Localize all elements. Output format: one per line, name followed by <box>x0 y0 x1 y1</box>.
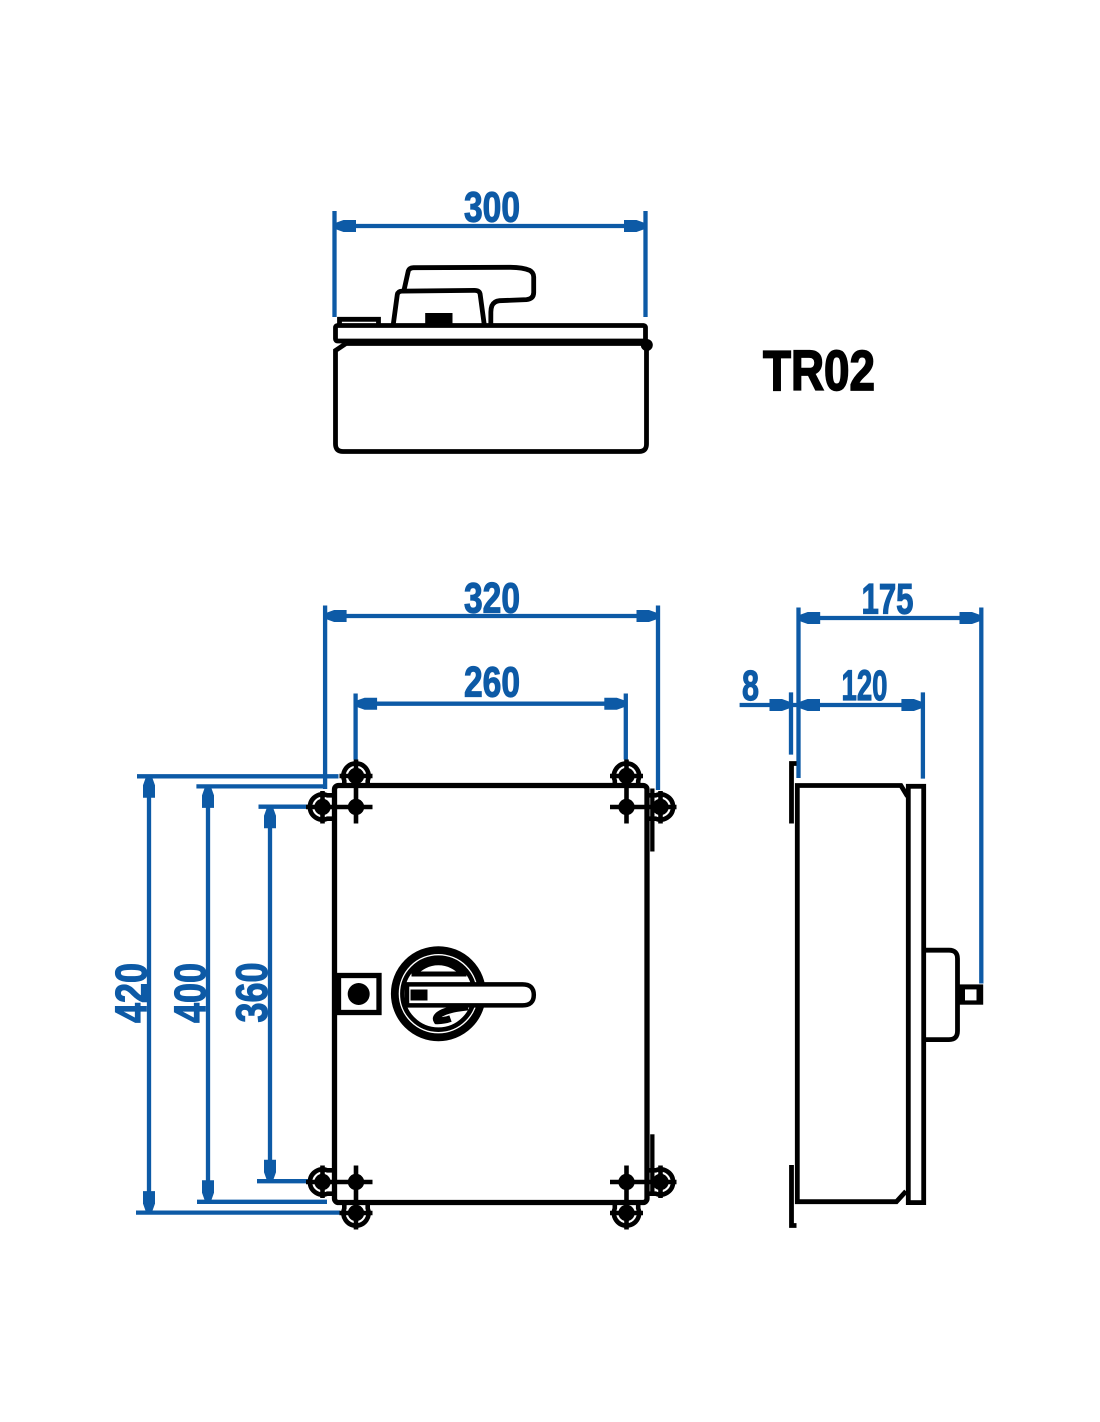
lid tab (top-left small rectangle) <box>340 319 379 325</box>
handle grip chord <box>412 972 467 977</box>
mounting lug top-left <box>306 760 373 824</box>
svg-text:300: 300 <box>464 184 520 232</box>
mounting lug bottom-left <box>306 1166 373 1230</box>
svg-text:120: 120 <box>842 662 888 710</box>
door lock (square with dot) <box>339 976 380 1013</box>
dimension 175 <box>799 608 982 984</box>
hinge top (front view right edge) <box>650 789 654 852</box>
svg-text:360: 360 <box>228 963 277 1023</box>
dimension 8 + 120 <box>740 692 923 778</box>
mounting lug bottom-right <box>610 1166 677 1230</box>
svg-text:420: 420 <box>108 963 157 1023</box>
dimension 300 <box>335 211 646 317</box>
back mounting plate bottom (side view) <box>792 1165 797 1226</box>
dimension 320 <box>325 606 658 791</box>
svg-text:8: 8 <box>742 662 759 710</box>
lid (top view) <box>336 326 646 342</box>
back mounting plate top (side view) <box>792 764 797 824</box>
lever pointer block <box>411 990 428 1001</box>
handle latch (filled block on base) <box>425 313 452 325</box>
rotary handle outer ring <box>395 950 482 1037</box>
handle grip upper arc <box>414 962 462 973</box>
box body (top view) <box>336 344 647 452</box>
dimension 420 (left outer) <box>136 776 340 1212</box>
grip hook <box>436 1007 468 1021</box>
svg-text:TR02: TR02 <box>763 339 875 403</box>
svg-text:320: 320 <box>464 575 520 623</box>
handle lever (top view) <box>404 267 534 325</box>
box body (side view) <box>797 786 907 1202</box>
rotary handle inner ring <box>402 958 474 1030</box>
handle base (top view) <box>393 290 484 325</box>
handle lever (front view) <box>407 984 534 1005</box>
svg-text:400: 400 <box>167 963 216 1023</box>
handle shaft (side view) <box>958 984 984 1004</box>
svg-text:260: 260 <box>464 659 520 707</box>
enclosure box (front view) <box>335 786 648 1203</box>
svg-text:175: 175 <box>862 576 914 624</box>
mounting lug top-right <box>610 760 677 824</box>
dimension 360 <box>257 807 312 1181</box>
dimension 260 <box>356 694 626 760</box>
handle hump (side view) <box>926 950 958 1039</box>
hinge bottom (front view right edge) <box>650 1134 654 1192</box>
hinge pin (top view, filled circle at right corner) <box>641 339 653 351</box>
lid (side view) <box>908 786 923 1202</box>
dimension 400 <box>196 786 327 1201</box>
